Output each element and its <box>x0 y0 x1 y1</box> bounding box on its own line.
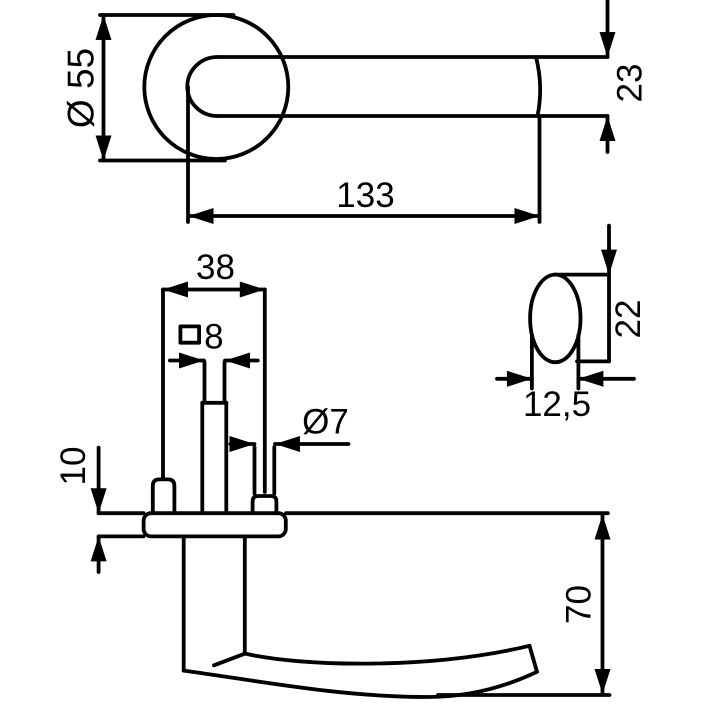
left screw boss <box>153 479 175 513</box>
dim 70 bottom extension line <box>438 693 610 697</box>
dim Ø55 bottom extension line <box>100 159 225 163</box>
spindle upper left edge <box>203 362 207 402</box>
dim 12,5 right tail line <box>578 377 634 381</box>
arrowhead 133 left <box>189 208 214 224</box>
arrowhead Ø7 leftward <box>275 436 300 452</box>
svg-text:Ø 55: Ø 55 <box>61 48 102 128</box>
dim Ø7 right tail line <box>275 442 349 446</box>
dim 10 upper tail line <box>97 448 101 514</box>
grip cross-section top line <box>554 273 609 277</box>
arrowhead 38 left <box>163 282 188 298</box>
arrowhead 23 up <box>600 116 616 141</box>
arrowhead 10 down <box>91 488 107 513</box>
dim 10 bottom extension line <box>99 535 144 539</box>
grip cross-section ellipse <box>530 275 580 363</box>
dim 12,5 right extension line <box>577 335 581 389</box>
spindle sleeve right edge <box>224 403 228 511</box>
screw shaft right edge <box>272 447 276 494</box>
lever bar bottom line (top view) with extension to 23-dim <box>218 114 608 118</box>
screw shaft left edge <box>253 447 257 494</box>
lever neck left line (front view) <box>182 536 186 670</box>
arrowhead Ø7 rightward <box>230 436 255 452</box>
svg-text:133: 133 <box>336 176 394 215</box>
arrowhead Ø55 up <box>96 15 112 40</box>
dim 38 left extension line down to left screw boss <box>161 290 165 478</box>
dim Ø55 top extension line <box>100 13 234 17</box>
lever neck right line (front view) <box>243 536 247 653</box>
dim 8 right tail line <box>225 359 258 363</box>
lever neck inner diagonal line <box>214 654 245 666</box>
dim 133 right extension line <box>538 116 542 222</box>
svg-text:23: 23 <box>611 64 650 103</box>
dim 12,5 left tail line <box>497 377 532 381</box>
grip cross-section right flat edge <box>607 275 611 362</box>
svg-text:38: 38 <box>196 248 235 287</box>
arrowhead 12,5 leftward <box>578 371 603 387</box>
lever bar right end cap arc <box>536 57 540 116</box>
dim 70 dimension line <box>601 515 605 695</box>
lever grip top edge curve <box>245 646 530 664</box>
arrowhead Ø55 down <box>96 136 112 161</box>
arrowhead 23 down <box>600 32 616 57</box>
rose plate (side view) <box>144 513 286 536</box>
lever bar top line (top view) with extension to 23-dim <box>218 55 608 59</box>
svg-text:8: 8 <box>204 318 223 357</box>
arrowhead 70 down <box>595 669 611 694</box>
dim Ø55 dimension line <box>102 15 106 161</box>
dim 38 right extension line / screw centre line <box>263 290 267 493</box>
arrowhead 70 up <box>595 515 611 540</box>
arrowhead 22 down <box>601 250 617 275</box>
spindle step line <box>202 401 226 405</box>
arrowhead 10 up <box>91 536 107 561</box>
dim 133 dimension line <box>189 214 540 218</box>
svg-text:10: 10 <box>54 447 93 486</box>
dim 12,5 left extension line <box>530 335 534 389</box>
arrowhead 133 right <box>515 208 540 224</box>
dim 70 top extension line <box>286 511 608 515</box>
right screw boss <box>253 496 277 513</box>
dim 23 upper tail line <box>606 0 610 57</box>
lever grip bottom edge curve <box>184 671 537 697</box>
dim 8 left tail line <box>170 359 204 363</box>
svg-text:22: 22 <box>609 300 648 339</box>
arrowhead 12,5 rightward <box>507 371 532 387</box>
svg-text:70: 70 <box>560 585 599 624</box>
svg-text:Ø7: Ø7 <box>302 403 349 442</box>
spindle upper right edge <box>223 362 227 402</box>
dim 38 dimension line <box>163 288 265 292</box>
square-8 symbol <box>180 326 199 342</box>
grip cross-section bottom line <box>577 359 609 363</box>
spindle sleeve left edge <box>200 403 204 511</box>
dim 23 lower tail line <box>606 116 610 152</box>
dim 133 left extension line <box>186 87 190 222</box>
lever neck left semicircle arc <box>187 57 217 116</box>
lever grip end cap <box>530 646 538 672</box>
dim 10 top extension line <box>99 511 144 515</box>
svg-text:12,5: 12,5 <box>523 385 591 424</box>
arrowhead 8 rightward <box>179 353 204 369</box>
arrowhead 38 right <box>240 282 265 298</box>
dim 22 upper tail line <box>607 226 611 275</box>
dim 10 lower tail line <box>97 536 101 572</box>
dim Ø7 left tail line <box>230 442 254 446</box>
arrowhead 8 leftward <box>225 353 250 369</box>
rose circle (top view, Ø55 rosette) <box>144 15 288 159</box>
